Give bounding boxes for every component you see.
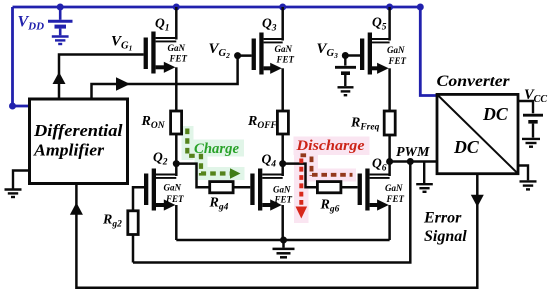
resistor RFreq bbox=[384, 111, 395, 135]
battery VCC bbox=[518, 101, 543, 138]
node VG2 bbox=[234, 52, 241, 59]
node A (Q2 drain) bbox=[173, 160, 180, 167]
ground VDD bbox=[52, 37, 69, 45]
arrow charge bbox=[230, 168, 241, 178]
node VG3 bbox=[342, 52, 349, 59]
svg-text:Error: Error bbox=[423, 210, 462, 227]
arrow right on VG2 wire bbox=[116, 77, 130, 91]
ground differential amplifier bbox=[5, 171, 30, 198]
ground PWM wire bbox=[416, 162, 433, 192]
wire PWM to converter bbox=[390, 160, 437, 163]
wire RON to node A bbox=[175, 134, 178, 164]
battery VG3 bbox=[335, 56, 356, 87]
block differential amplifier bbox=[30, 99, 128, 184]
svg-text:GaN: GaN bbox=[275, 44, 293, 54]
arrow discharge red bbox=[299, 159, 303, 207]
svg-text:GaN: GaN bbox=[273, 185, 291, 195]
transistor Q4 bbox=[250, 152, 292, 211]
resistor Rg6 bbox=[317, 182, 341, 193]
transistor Q1 bbox=[144, 16, 188, 74]
arrow up on VG1 wire bbox=[53, 72, 66, 84]
transistor Q2 bbox=[144, 150, 184, 211]
resistor Rg4 bbox=[210, 182, 233, 193]
ground converter right bbox=[518, 166, 537, 190]
ground sources bus bbox=[273, 240, 295, 257]
wire Rg4 to Q4 gate bbox=[233, 186, 250, 189]
svg-text:FET: FET bbox=[388, 56, 407, 66]
wire RFreq to PWM node bbox=[388, 135, 391, 162]
wire VG2 (DA output to Q3 gate) bbox=[92, 56, 252, 99]
svg-text:GaN: GaN bbox=[164, 183, 182, 193]
svg-text:FET: FET bbox=[276, 55, 295, 65]
arrow up into DA bbox=[70, 203, 83, 215]
svg-text:GaN: GaN bbox=[168, 43, 186, 53]
node Q6 drain bbox=[386, 158, 393, 165]
svg-text:DC: DC bbox=[482, 104, 509, 124]
svg-text:GaN: GaN bbox=[387, 45, 405, 55]
wire PWM feedback bus bbox=[133, 162, 410, 263]
wire Q1 drain to rail bbox=[175, 7, 178, 40]
svg-text:GaN: GaN bbox=[385, 183, 403, 193]
wire Q6 drain to PWM node bbox=[388, 162, 391, 177]
arrow down error signal bbox=[471, 195, 484, 207]
wire error signal bbox=[76, 174, 477, 288]
resistor Rg2 bbox=[128, 211, 138, 235]
svg-text:Differential: Differential bbox=[33, 121, 123, 140]
wire Q4 source to bus bbox=[281, 205, 284, 240]
resistor RON bbox=[171, 111, 182, 134]
wire Rg6 to Q6 gate bbox=[341, 186, 358, 189]
svg-text:FET: FET bbox=[386, 194, 405, 204]
svg-text:Discharge: Discharge bbox=[295, 138, 365, 154]
svg-text:Signal: Signal bbox=[424, 228, 467, 245]
node sources ground bbox=[280, 237, 287, 244]
battery VDD bbox=[48, 7, 73, 35]
wire VG1 (DA output to Q1 gate) bbox=[59, 55, 144, 100]
svg-text:Converter: Converter bbox=[437, 73, 511, 90]
transistor Q5 bbox=[360, 15, 407, 75]
wire Q6 source to bus bbox=[388, 205, 391, 240]
wire sources bus bbox=[176, 239, 389, 242]
block converter bbox=[437, 73, 519, 174]
svg-text:DC: DC bbox=[453, 137, 480, 157]
wire VDD blue rail bbox=[13, 7, 438, 106]
svg-text:PWM: PWM bbox=[396, 145, 430, 160]
wire Q4 drain to node B bbox=[281, 164, 284, 176]
svg-text:FET: FET bbox=[169, 54, 188, 64]
node B (Q4 drain) bbox=[279, 160, 286, 167]
svg-text:FET: FET bbox=[165, 194, 184, 204]
ground VCC bbox=[522, 139, 540, 147]
wire Q3 drain to rail bbox=[281, 7, 284, 41]
ground VG3 bbox=[338, 87, 354, 95]
wire Q2 drain to node A bbox=[175, 164, 178, 176]
path charge dashed bbox=[187, 129, 230, 174]
svg-text:Amplifier: Amplifier bbox=[33, 141, 105, 160]
resistor ROFF bbox=[277, 111, 288, 134]
transistor Q6 bbox=[358, 156, 405, 211]
highlight discharge bbox=[294, 137, 370, 224]
wire ROFF to node B bbox=[281, 134, 284, 164]
wire Q5 source to RFreq bbox=[388, 68, 391, 111]
svg-text:Charge: Charge bbox=[194, 141, 240, 157]
wire Q2 gate to Rg2 bbox=[133, 187, 144, 211]
node PWM branch bbox=[407, 158, 414, 165]
wire VG3 to Q5 gate bbox=[345, 54, 360, 57]
wire Rg2 to feedback bus bbox=[132, 235, 135, 263]
path discharge dashed bbox=[301, 155, 353, 176]
highlight charge bbox=[182, 126, 245, 180]
wire node B to Rg6 bbox=[283, 164, 318, 188]
svg-text:FET: FET bbox=[274, 195, 293, 205]
wire Q2 source to bus bbox=[175, 205, 178, 240]
wire Q5 drain to rail bbox=[388, 7, 391, 41]
transistor Q3 bbox=[252, 16, 295, 75]
wire Q1 source to RON bbox=[175, 67, 178, 111]
wire Q3 source to ROFF bbox=[281, 68, 284, 111]
wire node A to Rg4 bbox=[176, 164, 209, 188]
node VDD rail dots bbox=[9, 4, 424, 110]
